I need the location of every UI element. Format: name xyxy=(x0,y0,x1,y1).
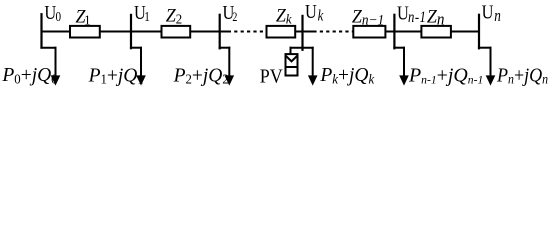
resistor Zn xyxy=(421,26,451,38)
svg-text:PV: PV xyxy=(260,66,283,88)
wire Zn-1 to Zn through bus n-1 xyxy=(386,31,421,33)
wire Zk to bus k xyxy=(296,31,317,33)
wire Z2 to dashed section through bus2 xyxy=(191,31,231,33)
wire dashed bus2 to Zk xyxy=(234,31,266,33)
load branch arrow P1+jQ1 at bus 1 xyxy=(130,47,146,86)
bus bar Uk xyxy=(301,15,303,51)
wire Zn to bus n xyxy=(451,31,479,33)
load branch arrow Pk+jQk at bus k xyxy=(290,47,318,86)
bus bar Un xyxy=(478,14,480,50)
wire bus0 to Z1 xyxy=(42,31,70,33)
resistor Z1 xyxy=(70,26,100,38)
svg-text:Pk+jQk: Pk+jQk xyxy=(319,64,375,87)
resistor Zk xyxy=(267,26,296,38)
load branch arrow P2+jQ2 at bus 2 xyxy=(219,47,235,86)
PV unit box xyxy=(285,54,299,75)
svg-text:P1+jQ1: P1+jQ1 xyxy=(88,64,144,87)
load branch arrow Pn+jQn at bus n xyxy=(478,47,495,86)
bus bar U2 xyxy=(219,14,221,50)
bus bar Un1 xyxy=(393,14,395,50)
svg-text:Pn+jQn: Pn+jQn xyxy=(496,64,548,86)
resistor Z2 xyxy=(162,26,191,38)
load branch arrow P0+jQ0 at bus 0 xyxy=(40,47,60,86)
resistor Zn-1 xyxy=(353,26,385,38)
wire PV drop xyxy=(290,47,292,55)
svg-text:P2+jQ2: P2+jQ2 xyxy=(173,64,229,87)
load branch arrow Pn-1+jQn-1 at bus n1 xyxy=(393,47,409,86)
wire Z1 to Z2 through bus1 xyxy=(100,31,161,33)
wire dashed bus k to Zn-1 xyxy=(320,31,353,33)
bus bar U0 xyxy=(40,13,42,49)
svg-text:P0+jQ0: P0+jQ0 xyxy=(1,64,58,87)
bus bar U1 xyxy=(130,14,132,50)
